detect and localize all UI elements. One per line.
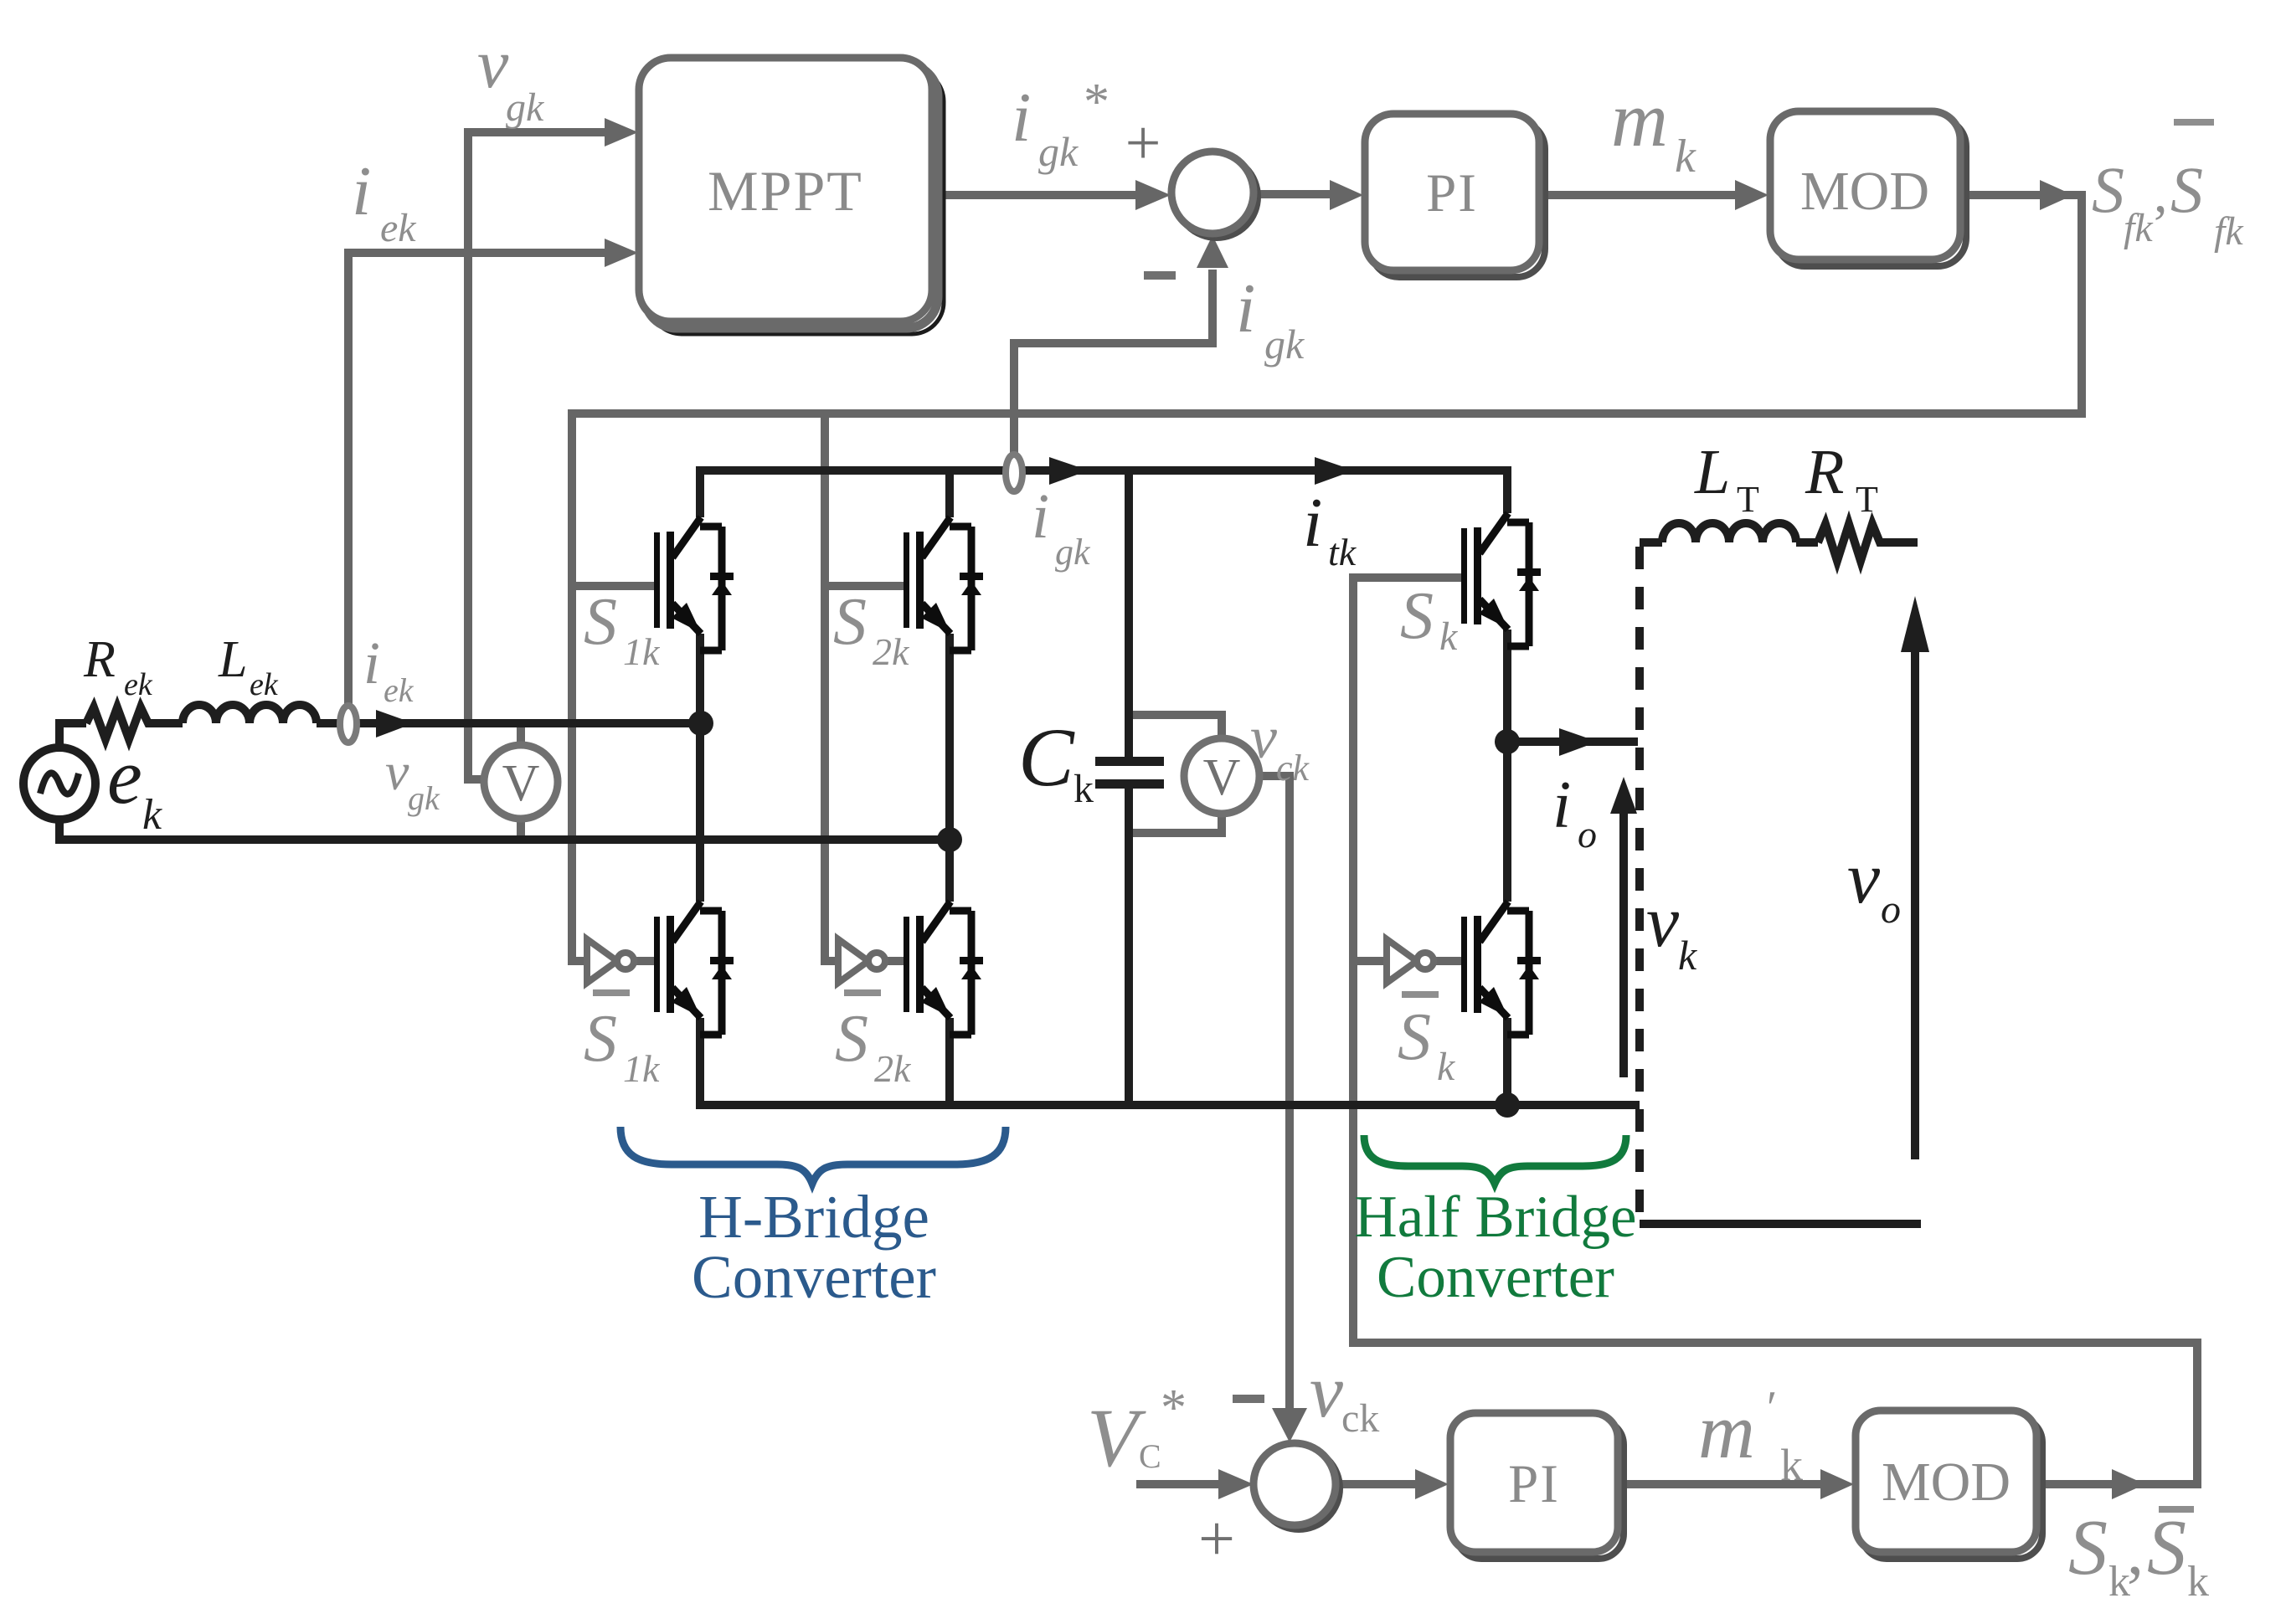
svg-text:MPPT: MPPT (708, 159, 863, 223)
svg-text:i: i (1552, 768, 1571, 842)
svg-text:Converter: Converter (692, 1243, 936, 1311)
svg-text:V: V (1087, 1391, 1146, 1484)
svg-text:S: S (1400, 579, 1434, 653)
svg-text:ek: ek (380, 206, 417, 250)
svg-text:gk: gk (506, 85, 545, 130)
svg-text:ck: ck (1276, 748, 1310, 789)
svg-text:v: v (1847, 838, 1881, 919)
svg-text:S: S (2068, 1504, 2108, 1591)
svg-text:ck: ck (1341, 1396, 1379, 1441)
svg-text:,: , (2127, 1515, 2144, 1589)
svg-text:i: i (1236, 270, 1255, 347)
svg-text:S: S (584, 1002, 617, 1076)
svg-text:2k: 2k (874, 1047, 912, 1090)
svg-text:e: e (107, 733, 142, 820)
svg-text:PI: PI (1508, 1454, 1560, 1514)
svg-text:v: v (1646, 881, 1680, 963)
svg-text:ek: ek (384, 671, 414, 709)
svg-text:S: S (1398, 1000, 1431, 1074)
svg-text:2k: 2k (873, 630, 910, 673)
svg-text:k: k (1675, 131, 1696, 182)
svg-text:k: k (2187, 1558, 2209, 1606)
svg-text:i: i (1303, 484, 1322, 562)
svg-text:H-Bridge: H-Bridge (698, 1183, 929, 1251)
svg-text:ek: ek (124, 667, 153, 702)
svg-text:MOD: MOD (1882, 1452, 2011, 1513)
svg-text:S: S (833, 585, 867, 659)
svg-text:i: i (1012, 79, 1031, 157)
svg-text:o: o (1881, 887, 1901, 932)
svg-text:tk: tk (1328, 531, 1357, 573)
svg-text:i: i (363, 630, 380, 696)
svg-text:Half Bridge: Half Bridge (1354, 1185, 1636, 1250)
svg-text:L: L (218, 631, 247, 688)
svg-text:S: S (2147, 1504, 2186, 1591)
svg-text:C: C (1139, 1437, 1161, 1475)
svg-text:S: S (584, 585, 617, 659)
svg-text:k: k (1439, 614, 1459, 659)
svg-text:fk: fk (2124, 206, 2154, 250)
svg-text:T: T (1856, 479, 1878, 520)
svg-text:i: i (352, 152, 371, 230)
svg-text:MOD: MOD (1800, 161, 1929, 222)
svg-text:v: v (385, 742, 409, 801)
svg-text:m: m (1698, 1388, 1755, 1475)
svg-text:gk: gk (408, 779, 440, 817)
svg-text:′: ′ (1767, 1382, 1777, 1434)
svg-text:S: S (2170, 153, 2203, 226)
svg-text:T: T (1737, 479, 1759, 520)
svg-text:V: V (1203, 749, 1241, 806)
svg-text:ek: ek (250, 667, 279, 702)
svg-text:k: k (142, 791, 162, 839)
svg-text:L: L (1694, 437, 1730, 507)
svg-text:C: C (1018, 711, 1075, 804)
svg-text:1k: 1k (623, 1047, 661, 1090)
svg-text:+: + (1125, 108, 1161, 178)
svg-text:o: o (1578, 813, 1597, 856)
svg-text:*: * (1084, 74, 1110, 131)
svg-text:,: , (2154, 163, 2168, 224)
svg-text:R: R (83, 631, 116, 688)
svg-text:v: v (1310, 1350, 1343, 1433)
svg-text:v: v (1250, 704, 1277, 771)
svg-text:m: m (1611, 76, 1668, 163)
svg-text:R: R (1805, 437, 1844, 507)
svg-text:k: k (1073, 767, 1094, 811)
svg-text:v: v (477, 25, 509, 103)
svg-text:V: V (502, 755, 540, 812)
svg-text:gk: gk (1055, 532, 1091, 573)
svg-text:1k: 1k (623, 630, 661, 673)
svg-text:S: S (835, 1002, 868, 1076)
svg-text:fk: fk (2214, 209, 2244, 254)
svg-text:Converter: Converter (1377, 1245, 1614, 1310)
svg-text:S: S (2092, 153, 2124, 226)
svg-text:k: k (1437, 1045, 1456, 1089)
svg-text:gk: gk (1038, 128, 1079, 175)
svg-text:i: i (1032, 481, 1049, 552)
svg-text:PI: PI (1426, 163, 1478, 224)
svg-text:k: k (1780, 1440, 1803, 1490)
svg-text:*: * (1161, 1380, 1187, 1436)
svg-text:+: + (1198, 1502, 1235, 1575)
svg-text:k: k (1678, 932, 1697, 979)
svg-text:gk: gk (1264, 321, 1305, 367)
